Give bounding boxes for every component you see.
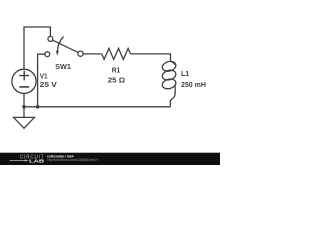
wire [83,53,102,55]
voltage source V1 [12,69,36,117]
CircuitLab logo [10,155,46,164]
inductor L1 [161,60,177,90]
switch SW1 [45,36,83,56]
svg-text:25 V: 25 V [40,82,58,89]
svg-text:250 mH: 250 mH [181,82,206,89]
junction dot [36,105,40,109]
resistor R1 [102,48,131,59]
svg-text:V1: V1 [40,73,48,80]
svg-text:LAB: LAB [29,159,46,164]
junction dot [22,105,26,109]
svg-text:http:⁄⁄circuitlab.com/c/2j535d: http:⁄⁄circuitlab.com/c/2j535dk4ey7r [47,158,99,162]
wire [170,89,175,107]
wire [24,27,50,69]
wire [38,54,45,107]
svg-text:25 Ω: 25 Ω [108,77,126,84]
wire [131,54,171,61]
footer bar [0,153,220,165]
wire [24,106,170,108]
svg-text:L1: L1 [181,71,189,78]
svg-text:SW1: SW1 [55,64,71,71]
ground [14,117,35,128]
svg-text:R1: R1 [112,68,121,75]
